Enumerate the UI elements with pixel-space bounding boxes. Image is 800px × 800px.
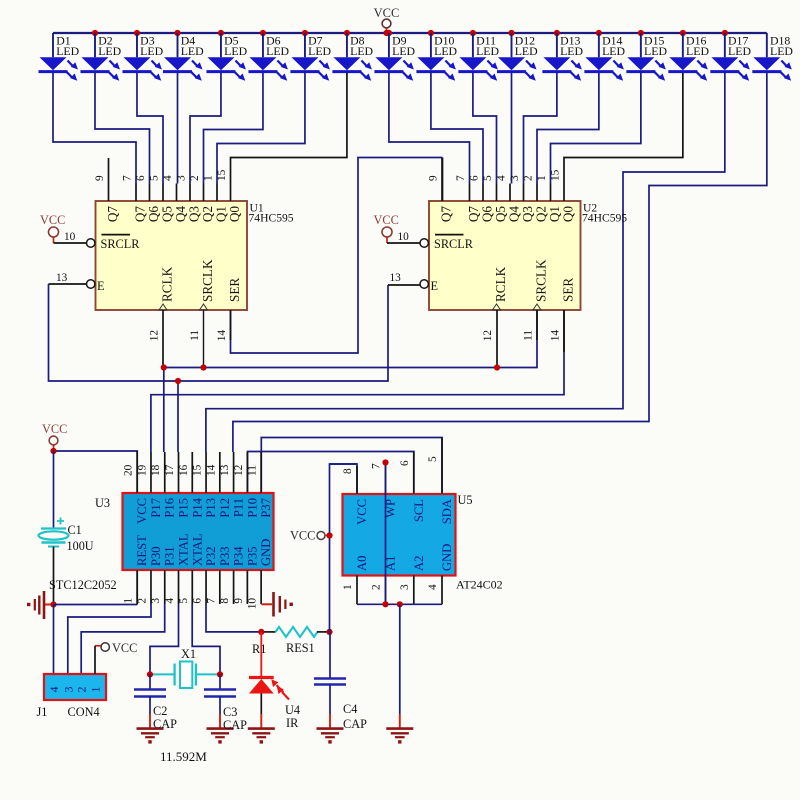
LED D4 [163, 33, 204, 81]
svg-text:LED: LED [266, 44, 289, 58]
svg-text:2: 2 [371, 584, 383, 590]
svg-text:14: 14 [205, 464, 217, 476]
svg-text:STC12C2052: STC12C2052 [49, 578, 117, 592]
svg-text:3: 3 [176, 175, 188, 181]
junction U1 pin11 [200, 364, 206, 370]
ground (left, REST node) [27, 591, 54, 619]
U2 top pin 2 Q2 [523, 175, 549, 222]
LED D12 [497, 33, 538, 81]
svg-text:P12: P12 [218, 498, 232, 518]
svg-text:IR: IR [286, 716, 299, 730]
wire D13 to U2 Q3 pin3 [524, 73, 557, 184]
capacitor C4 CAP [314, 632, 346, 714]
svg-text:VCC: VCC [135, 498, 149, 524]
junction VCC/C1 node [50, 448, 56, 454]
svg-text:5: 5 [427, 456, 439, 462]
U3 top pin 12 P10 [233, 452, 259, 518]
ground (U4) [248, 714, 275, 744]
svg-text:12: 12 [482, 330, 494, 342]
svg-text:3: 3 [399, 584, 411, 590]
svg-text:4: 4 [164, 598, 176, 604]
junction VCC at U5 supply line [326, 532, 332, 538]
svg-text:Q7: Q7 [439, 206, 454, 223]
svg-text:LED: LED [644, 44, 667, 58]
svg-text:X1: X1 [181, 647, 196, 661]
label C4 [343, 702, 367, 731]
LED D8 [332, 33, 373, 81]
U1 pin 13 E enable [56, 272, 105, 293]
U2 pin 9 stub Q7' [428, 158, 454, 222]
svg-text:6: 6 [135, 175, 147, 181]
J1 pin 1 [89, 687, 103, 693]
svg-text:6: 6 [192, 598, 204, 604]
wire D10 to U2 Q6 pin6 [431, 73, 483, 184]
svg-text:15: 15 [192, 464, 204, 476]
svg-text:CON4: CON4 [68, 705, 100, 719]
svg-text:SRCLK: SRCLK [534, 259, 549, 302]
U3 bottom pin 7 P33 [205, 546, 232, 604]
wire U3 pin4 XTAL to crystal left node [150, 604, 179, 674]
svg-text:Q7: Q7 [105, 206, 120, 223]
LED D13 [542, 33, 583, 81]
U5 top pin 5 SDA [427, 438, 454, 525]
svg-text:5: 5 [149, 175, 161, 181]
svg-text:5: 5 [178, 598, 190, 604]
LED D9 [374, 33, 415, 81]
svg-text:U5: U5 [458, 493, 473, 507]
svg-text:9: 9 [94, 175, 106, 181]
svg-text:E: E [97, 279, 105, 293]
wire C1 to REST node [53, 547, 55, 605]
svg-text:LED: LED [308, 44, 331, 58]
svg-text:11: 11 [523, 330, 535, 341]
wire D2 to U1 Q6 pin6 [95, 73, 150, 184]
svg-text:4: 4 [496, 175, 508, 181]
svg-text:11: 11 [247, 465, 259, 476]
svg-text:P37: P37 [259, 498, 273, 518]
svg-text:10: 10 [247, 598, 259, 610]
svg-text:P15: P15 [177, 498, 191, 518]
capacitor C2 CAP [134, 674, 166, 714]
svg-text:6: 6 [469, 175, 481, 181]
svg-text:RCLK: RCLK [493, 266, 508, 302]
wire U3 pin11 to U5 SDA pin5 [261, 438, 442, 495]
svg-text:19: 19 [136, 464, 148, 476]
svg-text:4: 4 [162, 175, 174, 181]
wire U3 pin5 XTAL to crystal right node [192, 604, 220, 674]
ground (right of U3 pin10) [261, 592, 293, 617]
LED D14 [584, 33, 625, 81]
U1 top pin 3 Q3 [176, 175, 202, 222]
U3 top pin 18 P16 [150, 452, 177, 518]
svg-text:LED: LED [434, 44, 457, 58]
junction ground stem on U5 rail [397, 601, 403, 607]
svg-text:12: 12 [149, 330, 161, 342]
ground (U5) [386, 714, 413, 744]
LED D2 [80, 33, 121, 81]
U5 top pin 6 SCL [399, 452, 426, 523]
U3 top pin 15 P13 [192, 452, 219, 518]
svg-text:C2: C2 [153, 704, 167, 718]
svg-text:7: 7 [371, 463, 383, 469]
wire D17 to U3 P14 pin15 [206, 73, 725, 452]
wire U3 pin3 P31 to J1 pin2 [81, 604, 165, 674]
svg-text:10: 10 [64, 231, 76, 243]
junction crystal left node [147, 671, 153, 677]
svg-text:LED: LED [98, 44, 121, 58]
svg-text:7: 7 [122, 175, 134, 181]
LED D17 [710, 33, 751, 81]
wire U3 pin12 to U5 SCL pin6 [248, 452, 414, 495]
svg-text:11.592M: 11.592M [160, 749, 207, 764]
svg-text:SER: SER [561, 278, 576, 302]
svg-text:U3: U3 [95, 496, 110, 510]
wire D12 to U2 Q4 pin4 [511, 73, 513, 184]
svg-text:LED: LED [224, 44, 247, 58]
U2 top pin 3 Q3 [509, 175, 535, 222]
svg-text:J1: J1 [37, 705, 48, 719]
svg-text:A2: A2 [412, 556, 426, 571]
svg-text:VCC: VCC [112, 641, 137, 655]
svg-text:XTAL: XTAL [190, 533, 204, 566]
svg-text:2: 2 [523, 175, 535, 181]
U1 bottom pin 14 SER [216, 278, 242, 342]
U3 bottom pin 1 REST [123, 535, 150, 604]
U2 top pin 7 Q7 [455, 175, 481, 222]
wire U3 pin2 P30 to J1 pin3 [68, 604, 151, 674]
U5 bottom pin 3 A2 [399, 556, 426, 605]
svg-text:LED: LED [140, 44, 163, 58]
shift register U1 74HC595 body [96, 201, 294, 310]
svg-text:SRCLK: SRCLK [200, 259, 215, 302]
U2 bottom pin 11 SRCLK [523, 259, 549, 341]
U1 pin 10 SRCLR with VCC [40, 213, 140, 251]
svg-text:RES1: RES1 [286, 641, 315, 655]
U1 top pin 4 Q4 [162, 175, 188, 222]
wire U2 SER pin14 to U3 pin19 [151, 310, 564, 452]
svg-text:GND: GND [440, 544, 454, 571]
LED D11 [458, 33, 499, 81]
wire WP pin7 to ground rail (crosses chip) [385, 463, 387, 605]
U1 top pin 15 Q0 [216, 169, 242, 222]
wire D1 to U1 Q7 pin7 [53, 73, 136, 184]
svg-text:E: E [431, 279, 439, 293]
svg-text:Q0: Q0 [227, 206, 242, 223]
svg-text:14: 14 [550, 330, 562, 342]
junction U1 pin12 [161, 364, 167, 370]
junction E net to U3 pin17 [175, 378, 181, 384]
svg-text:SER: SER [227, 278, 242, 302]
resistor R1 RES1 [252, 627, 330, 656]
U1 top pin 6 Q6 [135, 175, 161, 222]
J1 pin 2 [75, 687, 89, 693]
junction R1/VCC/C4 node [326, 629, 332, 635]
capacitor C1 100U electrolytic [39, 518, 94, 554]
svg-text:7: 7 [205, 598, 217, 604]
svg-text:1: 1 [536, 175, 548, 181]
svg-text:2: 2 [189, 175, 201, 181]
wire VCC rail down to C1 [53, 451, 55, 529]
svg-text:P16: P16 [163, 498, 177, 518]
svg-text:C4: C4 [343, 702, 357, 716]
capacitor C3 CAP [204, 674, 236, 714]
U1 bottom pin 11 SRCLK [189, 259, 215, 341]
wire REST node to U3 pin1 [54, 570, 138, 605]
wire D3 to U1 Q5 pin5 [137, 73, 163, 184]
svg-text:VCC: VCC [374, 213, 399, 227]
wire net RCLK/SRCLK (U1.12 U1.11 U2.12 U2.11 to U3 pin18) [163, 310, 537, 452]
LED D10 [416, 33, 457, 81]
junction crystal right node [217, 671, 223, 677]
ground (C3) [207, 714, 234, 744]
svg-text:Q0: Q0 [561, 206, 576, 223]
svg-text:14: 14 [216, 330, 228, 342]
U3 top pin 14 P12 [205, 452, 232, 518]
crystal X1 [150, 647, 220, 688]
svg-text:74HC595: 74HC595 [582, 212, 627, 225]
svg-text:SRCLR: SRCLR [434, 237, 474, 251]
svg-text:12: 12 [233, 464, 245, 476]
wire D4 to U1 Q4 pin4 [177, 73, 179, 184]
wire U5 rail to ground [399, 604, 401, 714]
U5 top pin 7 WP [371, 463, 398, 518]
wire net E (U1.13 - U2.13 - U3 pin17) [49, 284, 421, 452]
svg-text:P32: P32 [204, 546, 218, 566]
LED D6 [248, 33, 289, 81]
U3 bottom pin 2 P30 [136, 546, 163, 604]
U5 bottom pin 2 A1 [371, 556, 398, 605]
svg-text:LED: LED [728, 44, 751, 58]
junction WP top [382, 459, 388, 465]
wire D6 to U1 Q2 pin2 [204, 73, 263, 184]
U3 top pin 17 P15 [164, 452, 191, 518]
IR receiver U4 diode [249, 632, 300, 730]
svg-text:2: 2 [136, 598, 148, 604]
svg-text:VCC: VCC [40, 213, 65, 227]
svg-text:LED: LED [476, 44, 499, 58]
svg-text:11: 11 [189, 330, 201, 341]
U2 top pin 6 Q6 [469, 175, 495, 222]
svg-text:LED: LED [56, 44, 79, 58]
svg-text:1: 1 [203, 175, 215, 181]
svg-text:C1: C1 [68, 523, 82, 537]
junction REST/GND/J1 node [50, 601, 56, 607]
U5 bottom pin 4 GND [427, 544, 454, 605]
junction U2 pin12 [494, 364, 500, 370]
label C3 [223, 705, 247, 732]
U3 bottom pin 8 P34 [219, 546, 246, 604]
svg-text:100U: 100U [67, 539, 94, 553]
U3 bottom pin 9 P35 [233, 546, 259, 604]
wire D7 to U1 Q1 pin1 [217, 73, 305, 184]
svg-text:3: 3 [61, 687, 75, 693]
svg-text:6: 6 [399, 460, 411, 466]
svg-text:C3: C3 [223, 705, 237, 719]
wire U3 pin6 P32 to IR data node [206, 604, 261, 632]
svg-text:LED: LED [392, 44, 415, 58]
svg-text:U4: U4 [285, 703, 300, 717]
U1 bottom pin 12 RCLK [149, 266, 175, 341]
U3 bottom pin 10 GND [247, 539, 274, 610]
svg-text:15: 15 [216, 169, 228, 181]
svg-text:VCC: VCC [290, 529, 315, 543]
label C2 [153, 704, 177, 731]
power VCC (left, U3 supply) [42, 422, 67, 451]
svg-text:SRCLR: SRCLR [101, 237, 141, 251]
svg-text:13: 13 [390, 272, 402, 284]
svg-text:P33: P33 [218, 546, 232, 566]
wire VCC line R1 node up to U5 pin8 [330, 464, 358, 632]
svg-text:13: 13 [56, 272, 68, 284]
wire D16 to U2 Q0 pin15 [564, 73, 683, 184]
wire VCC to U3 pin20 [54, 451, 138, 493]
svg-text:LED: LED [181, 44, 204, 58]
svg-text:LED: LED [686, 44, 709, 58]
svg-text:18: 18 [150, 464, 162, 476]
svg-text:5: 5 [482, 175, 494, 181]
power VCC (U5) [290, 529, 330, 543]
svg-text:4: 4 [427, 584, 439, 590]
svg-text:LED: LED [770, 44, 793, 58]
U3 bottom pin 3 P31 [150, 546, 177, 604]
svg-text:REST: REST [135, 535, 149, 566]
svg-text:LED: LED [350, 44, 373, 58]
svg-text:P11: P11 [232, 498, 246, 517]
svg-text:3: 3 [509, 175, 521, 181]
U5 bottom pin 1 A0 [342, 556, 369, 605]
svg-text:1: 1 [342, 584, 354, 590]
U2 bottom pin 12 RCLK [482, 266, 508, 341]
U1 pin 9 stub Q7' [94, 158, 120, 222]
svg-text:LED: LED [515, 44, 538, 58]
svg-text:VCC: VCC [374, 6, 400, 20]
U1 top pin 2 Q2 [189, 175, 215, 222]
svg-text:8: 8 [219, 598, 231, 604]
svg-text:17: 17 [164, 464, 176, 476]
U3 top pin 11 P37 [247, 452, 274, 518]
svg-text:VCC: VCC [42, 422, 67, 436]
svg-text:A0: A0 [355, 556, 369, 571]
U2 top pin 15 Q0 [550, 169, 576, 222]
U2 top pin 4 Q4 [496, 175, 522, 222]
svg-text:VCC: VCC [355, 499, 369, 525]
LED D7 [290, 33, 331, 81]
svg-text:R1: R1 [252, 642, 266, 656]
U2 bottom pin 14 SER [550, 278, 576, 342]
svg-text:20: 20 [123, 464, 135, 476]
LED D5 [206, 33, 247, 81]
svg-text:8: 8 [342, 468, 354, 474]
svg-text:CAP: CAP [223, 718, 247, 732]
wire D9 to U2 Q7 pin7 [389, 73, 470, 184]
LED D18 [752, 33, 793, 81]
LED D16 [668, 33, 709, 81]
ground (C2) [137, 714, 164, 744]
wire D8 to U1 Q0 pin15 [231, 73, 347, 184]
svg-text:1: 1 [123, 598, 135, 604]
svg-text:9: 9 [233, 598, 245, 604]
junction IR data node [258, 629, 264, 635]
shift register U2 74HC595 body [429, 201, 627, 310]
U3 top pin 19 P17 [136, 452, 163, 518]
U3 bottom pin 6 P32 [192, 546, 219, 604]
svg-text:SCL: SCL [412, 499, 426, 522]
LED D1 [39, 33, 80, 81]
wire VCC rail down to J1 pin4 [53, 605, 55, 675]
power VCC (J1 pin1) [95, 641, 137, 674]
svg-text:7: 7 [455, 175, 467, 181]
svg-text:2: 2 [75, 687, 89, 693]
svg-text:16: 16 [178, 464, 190, 476]
J1 pin 3 [61, 687, 75, 693]
svg-text:AT24C02: AT24C02 [456, 578, 503, 592]
svg-text:XTAL: XTAL [177, 533, 191, 566]
svg-text:RCLK: RCLK [160, 266, 175, 302]
svg-text:4: 4 [47, 687, 61, 693]
wire VCC top rail [53, 32, 767, 34]
U3 bottom pin 4 XTAL [164, 533, 191, 604]
power VCC (top) [374, 6, 400, 33]
svg-text:CAP: CAP [153, 717, 177, 731]
svg-text:74HC595: 74HC595 [249, 212, 294, 225]
svg-text:P35: P35 [245, 546, 259, 566]
U1 top pin 5 Q5 [149, 175, 175, 222]
svg-text:LED: LED [602, 44, 625, 58]
eeprom U5 AT24C02 body [343, 493, 503, 592]
J1 pin 4 [47, 687, 61, 693]
wire U5 pin8 corner [330, 463, 358, 465]
LED D15 [626, 33, 667, 81]
U3 top pin 13 P11 [219, 452, 246, 517]
svg-text:P13: P13 [204, 498, 218, 518]
svg-text:P10: P10 [245, 498, 259, 518]
wire U5 bottom ground rail [357, 603, 442, 605]
svg-text:13: 13 [219, 464, 231, 476]
wire D14 to U2 Q2 pin2 [537, 73, 599, 184]
wire D15 to U2 Q1 pin1 [551, 73, 641, 184]
U1 top pin 7 Q7 [122, 175, 148, 222]
connector J1 CON4 body [37, 674, 107, 719]
U3 bottom pin 5 XTAL [178, 533, 205, 604]
U1 top pin 1 Q1 [203, 175, 229, 222]
svg-text:P31: P31 [163, 546, 177, 566]
U3 top pin 20 VCC [123, 452, 150, 524]
svg-text:P30: P30 [149, 546, 163, 566]
svg-text:15: 15 [550, 169, 562, 181]
microcontroller U3 STC12C2052 body [49, 493, 274, 592]
U5 top pin 8 VCC [342, 466, 369, 525]
svg-text:9: 9 [428, 175, 440, 181]
U2 top pin 5 Q5 [482, 175, 508, 222]
svg-text:P14: P14 [190, 497, 204, 517]
svg-text:3: 3 [150, 598, 162, 604]
svg-text:LED: LED [560, 44, 583, 58]
label crystal frequency 11.592M [160, 749, 207, 764]
junction A1/WP rail [382, 601, 388, 607]
svg-text:P17: P17 [149, 498, 163, 518]
U2 pin 10 SRCLR with VCC [374, 213, 474, 251]
U2 pin 13 E enable [390, 272, 439, 293]
wire D18 to U3 P13 pin13 [233, 73, 767, 452]
svg-text:CAP: CAP [343, 717, 367, 731]
wire D5 to U1 Q3 pin3 [190, 73, 221, 184]
svg-text:10: 10 [398, 231, 410, 243]
svg-text:P34: P34 [232, 546, 246, 566]
ground (C4) [317, 714, 344, 744]
junction dots on VCC rail [92, 30, 728, 36]
U3 top pin 16 P14 [178, 452, 205, 518]
svg-text:SDA: SDA [440, 499, 454, 524]
